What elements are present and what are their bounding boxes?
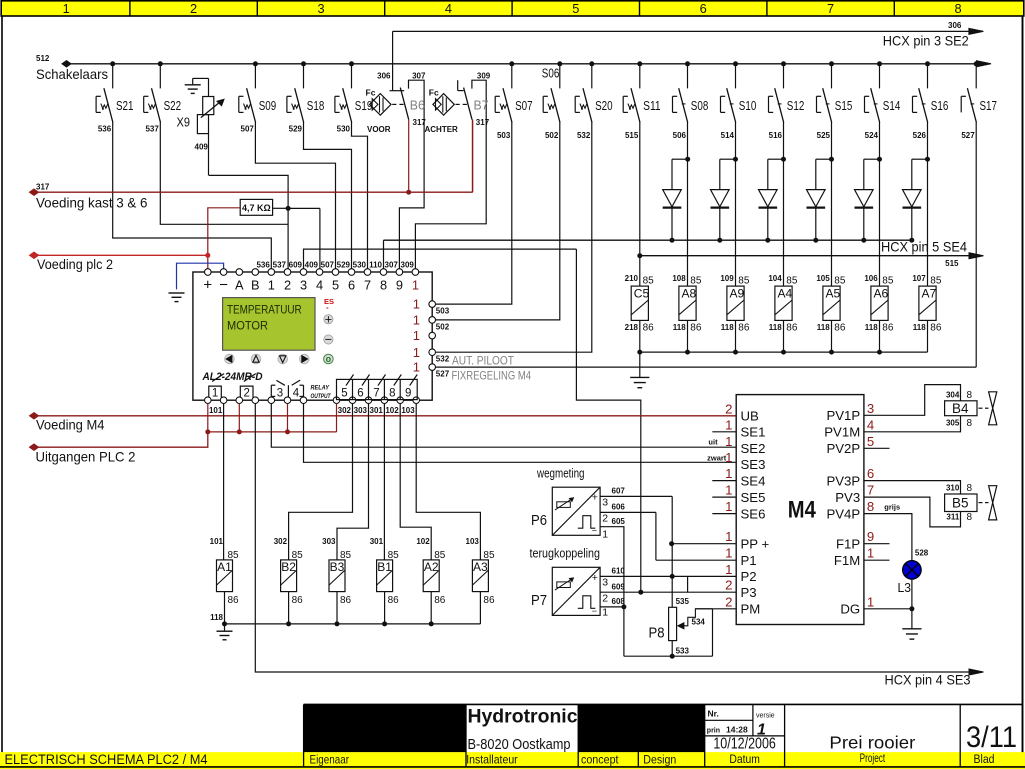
svg-text:309: 309 [401, 260, 415, 269]
svg-text:PV3: PV3 [835, 490, 860, 505]
svg-text:307: 307 [385, 260, 399, 269]
svg-text:HCX pin 4 SE3: HCX pin 4 SE3 [885, 673, 971, 688]
svg-text:SE1: SE1 [741, 425, 766, 440]
svg-text:HCX pin 5 SE4: HCX pin 5 SE4 [881, 240, 967, 255]
svg-text:1: 1 [63, 1, 70, 16]
svg-text:515: 515 [625, 131, 639, 140]
svg-text:107: 107 [912, 274, 926, 283]
svg-text:533: 533 [676, 646, 690, 655]
svg-text:4: 4 [293, 388, 300, 400]
svg-text:1: 1 [867, 594, 874, 609]
svg-text:terugkoppeling: terugkoppeling [530, 546, 601, 561]
svg-text:6: 6 [357, 388, 363, 400]
svg-text:2: 2 [602, 513, 608, 525]
svg-text:1: 1 [413, 297, 420, 312]
svg-text:Voeding kast 3 & 6: Voeding kast 3 & 6 [36, 195, 148, 210]
svg-text:1: 1 [413, 360, 420, 375]
svg-text:8: 8 [967, 483, 973, 494]
svg-text:prin: prin [707, 728, 720, 735]
svg-text:SE5: SE5 [741, 490, 766, 505]
svg-text:VOOR: VOOR [367, 125, 391, 134]
svg-text:303: 303 [322, 537, 336, 546]
svg-text:507: 507 [241, 124, 255, 133]
svg-text:7: 7 [373, 388, 379, 400]
svg-text:524: 524 [865, 131, 879, 140]
svg-text:wegmeting: wegmeting [536, 466, 584, 481]
svg-text:Eigenaar: Eigenaar [310, 753, 350, 767]
svg-text:AUT. PILOOT: AUT. PILOOT [452, 354, 515, 368]
svg-text:86: 86 [930, 323, 942, 334]
svg-text:1: 1 [413, 313, 420, 328]
svg-text:311: 311 [946, 512, 959, 521]
svg-text:+: + [592, 492, 598, 504]
svg-text:C5: C5 [634, 286, 650, 300]
svg-text:86: 86 [882, 323, 894, 334]
svg-text:PV1P: PV1P [826, 408, 860, 423]
svg-text:10/12/2006: 10/12/2006 [713, 736, 776, 753]
svg-text:85: 85 [690, 276, 702, 287]
svg-text:P2: P2 [741, 569, 757, 584]
svg-text:503: 503 [497, 131, 511, 140]
svg-text:86: 86 [834, 323, 846, 334]
svg-text:1: 1 [867, 546, 874, 561]
svg-text:8: 8 [867, 499, 874, 514]
svg-text:317: 317 [476, 118, 490, 127]
svg-text:S14: S14 [883, 98, 901, 113]
svg-text:3: 3 [867, 401, 874, 416]
svg-text:1: 1 [602, 607, 608, 619]
svg-text:4: 4 [867, 417, 874, 432]
svg-text:3: 3 [602, 577, 608, 589]
svg-text:102: 102 [416, 537, 430, 546]
svg-text:Prei rooier: Prei rooier [829, 733, 915, 753]
svg-text:S21: S21 [116, 98, 134, 113]
svg-text:101: 101 [209, 406, 223, 415]
svg-text:218: 218 [625, 323, 639, 332]
svg-text:86: 86 [340, 595, 352, 606]
svg-text:S06: S06 [542, 66, 560, 81]
svg-text:7: 7 [364, 278, 371, 293]
svg-text:3/11: 3/11 [966, 721, 1017, 754]
svg-text:85: 85 [643, 276, 655, 287]
svg-text:607: 607 [612, 487, 626, 496]
svg-text:Nr.: Nr. [708, 709, 719, 719]
svg-text:118: 118 [769, 323, 782, 332]
svg-text:S07: S07 [515, 98, 533, 113]
svg-text:3: 3 [317, 1, 324, 16]
svg-text:528: 528 [915, 549, 929, 558]
svg-text:-: - [326, 303, 329, 312]
svg-text:A6: A6 [874, 286, 889, 300]
svg-text:PV3P: PV3P [826, 473, 860, 488]
svg-text:609: 609 [612, 582, 626, 591]
svg-text:536: 536 [256, 260, 270, 269]
svg-text:2: 2 [725, 578, 732, 593]
svg-text:85: 85 [738, 276, 750, 287]
svg-text:PV2P: PV2P [826, 441, 860, 456]
svg-text:Voeding plc 2: Voeding plc 2 [37, 257, 113, 272]
svg-text:ELECTRISCH SCHEMA PLC2 / M4: ELECTRISCH SCHEMA PLC2 / M4 [5, 752, 208, 767]
svg-text:P8: P8 [649, 625, 665, 641]
svg-text:Datum: Datum [729, 752, 760, 766]
svg-text:317: 317 [36, 183, 50, 192]
svg-text:86: 86 [483, 595, 495, 606]
svg-text:409: 409 [305, 260, 319, 269]
svg-text:606: 606 [612, 503, 626, 512]
svg-text:P1: P1 [741, 553, 757, 568]
svg-text:HCX pin 3 SE2: HCX pin 3 SE2 [883, 34, 969, 49]
svg-text:B6: B6 [410, 98, 425, 113]
svg-text:101: 101 [210, 537, 224, 546]
svg-text:85: 85 [434, 550, 446, 561]
svg-text:86: 86 [738, 323, 750, 334]
svg-text:534: 534 [692, 617, 706, 626]
svg-text:P7: P7 [531, 593, 547, 609]
svg-text:MOTOR: MOTOR [227, 318, 268, 332]
svg-text:S22: S22 [164, 98, 182, 113]
svg-text:A8: A8 [682, 286, 697, 300]
svg-text:309: 309 [477, 71, 491, 80]
svg-text:85: 85 [388, 550, 400, 561]
svg-text:102: 102 [385, 406, 399, 415]
svg-text:532: 532 [577, 131, 591, 140]
svg-text:concept: concept [581, 753, 619, 767]
svg-text:2: 2 [284, 278, 291, 293]
svg-text:1: 1 [268, 278, 275, 293]
svg-text:210: 210 [625, 274, 639, 283]
svg-text:5: 5 [572, 1, 579, 16]
svg-text:8: 8 [967, 390, 973, 401]
svg-text:304: 304 [946, 390, 960, 399]
svg-text:Hydrotronic: Hydrotronic [468, 706, 578, 728]
svg-text:2: 2 [725, 401, 732, 416]
svg-text:8: 8 [967, 512, 973, 523]
svg-text:85: 85 [228, 550, 240, 561]
svg-text:+: + [325, 312, 332, 326]
svg-text:103: 103 [401, 406, 415, 415]
svg-text:9: 9 [405, 388, 411, 400]
svg-text:503: 503 [436, 307, 450, 316]
svg-text:5: 5 [332, 278, 339, 293]
svg-text:S18: S18 [307, 98, 325, 113]
svg-text:S19: S19 [355, 98, 373, 113]
svg-text:X9: X9 [177, 114, 191, 129]
svg-text:502: 502 [545, 131, 559, 140]
svg-text:305: 305 [946, 418, 960, 427]
svg-text:ACHTER: ACHTER [425, 125, 459, 134]
svg-text:−: − [325, 333, 332, 347]
svg-text:302: 302 [274, 537, 288, 546]
svg-text:PM: PM [741, 602, 761, 617]
svg-text:109: 109 [720, 274, 734, 283]
svg-text:Fc: Fc [429, 88, 439, 98]
svg-text:RELAY: RELAY [311, 384, 330, 391]
svg-text:L3: L3 [898, 580, 912, 595]
svg-text:118: 118 [673, 323, 686, 332]
svg-text:85: 85 [340, 550, 352, 561]
svg-text:515: 515 [945, 259, 959, 268]
svg-text:A7: A7 [922, 286, 937, 300]
svg-text:M4: M4 [788, 497, 817, 524]
svg-text:8: 8 [954, 1, 961, 16]
svg-text:1: 1 [602, 529, 608, 541]
svg-text:9: 9 [867, 529, 874, 544]
svg-text:6: 6 [867, 466, 874, 481]
svg-text:1: 1 [725, 483, 732, 498]
svg-text:302: 302 [338, 406, 352, 415]
svg-text:DG: DG [840, 602, 860, 617]
svg-text:PV4P: PV4P [826, 506, 860, 521]
svg-text:A4: A4 [778, 286, 793, 300]
svg-text:502: 502 [436, 322, 450, 331]
svg-text:86: 86 [643, 323, 655, 334]
svg-text:605: 605 [612, 517, 626, 526]
svg-text:86: 86 [786, 323, 798, 334]
svg-text:85: 85 [786, 276, 798, 287]
svg-text:2: 2 [243, 388, 249, 400]
svg-text:3: 3 [602, 497, 608, 509]
svg-text:6: 6 [348, 278, 355, 293]
svg-text:B4: B4 [952, 401, 969, 416]
svg-text:grijs: grijs [884, 503, 900, 512]
svg-text:B-8020 Oostkamp: B-8020 Oostkamp [468, 737, 571, 753]
svg-text:118: 118 [210, 613, 223, 622]
svg-text:301: 301 [370, 406, 384, 415]
svg-text:537: 537 [145, 124, 159, 133]
svg-text:6: 6 [700, 1, 707, 16]
svg-text:529: 529 [289, 124, 303, 133]
svg-text:SE2: SE2 [741, 441, 766, 456]
svg-text:A5: A5 [826, 286, 841, 300]
svg-text:507: 507 [321, 260, 335, 269]
svg-text:512: 512 [36, 54, 50, 63]
svg-text:UB: UB [741, 409, 760, 424]
svg-text:306: 306 [948, 21, 962, 30]
svg-text:610: 610 [612, 567, 626, 576]
svg-text:A9: A9 [730, 286, 745, 300]
svg-text:4: 4 [316, 278, 323, 293]
svg-text:86: 86 [388, 595, 400, 606]
svg-text:P6: P6 [531, 513, 547, 529]
svg-text:1: 1 [725, 499, 732, 514]
svg-text:307: 307 [412, 71, 426, 80]
svg-text:2: 2 [725, 594, 732, 609]
svg-text:85: 85 [882, 276, 894, 287]
svg-text:514: 514 [721, 131, 735, 140]
svg-text:1: 1 [725, 562, 732, 577]
svg-text:SE6: SE6 [741, 506, 766, 521]
svg-text:108: 108 [672, 274, 686, 283]
svg-text:S09: S09 [259, 98, 277, 113]
svg-text:104: 104 [768, 274, 782, 283]
svg-text:S08: S08 [691, 98, 709, 113]
svg-text:3: 3 [300, 278, 307, 293]
svg-text:103: 103 [466, 537, 480, 546]
svg-text:537: 537 [273, 260, 287, 269]
svg-text:609: 609 [289, 260, 303, 269]
svg-text:SE3: SE3 [741, 457, 766, 472]
svg-text:118: 118 [817, 323, 830, 332]
svg-text:1: 1 [412, 278, 419, 293]
svg-text:B7: B7 [474, 98, 489, 113]
svg-text:S11: S11 [643, 98, 661, 113]
svg-text:118: 118 [913, 323, 926, 332]
svg-text:86: 86 [434, 595, 446, 606]
svg-text:zwart: zwart [707, 454, 727, 463]
svg-text:+: + [592, 572, 598, 584]
svg-text:1: 1 [725, 546, 732, 561]
svg-text:105: 105 [816, 274, 830, 283]
svg-text:85: 85 [483, 550, 495, 561]
svg-text:+: + [203, 277, 212, 294]
svg-text:301: 301 [370, 537, 384, 546]
svg-text:Uitgangen PLC 2: Uitgangen PLC 2 [36, 449, 136, 464]
svg-text:8: 8 [967, 418, 973, 429]
svg-text:TEMPERATUUR: TEMPERATUUR [227, 302, 302, 316]
svg-text:535: 535 [676, 597, 690, 606]
svg-text:306: 306 [377, 71, 391, 80]
svg-text:506: 506 [673, 131, 687, 140]
svg-text:Project: Project [860, 751, 886, 765]
svg-text:8: 8 [389, 388, 395, 400]
svg-text:Design: Design [643, 753, 676, 767]
svg-text:B5: B5 [952, 496, 969, 511]
svg-text:85: 85 [834, 276, 846, 287]
svg-text:85: 85 [930, 276, 942, 287]
svg-text:PV1M: PV1M [824, 425, 860, 440]
svg-text:7: 7 [827, 1, 834, 16]
svg-text:4: 4 [445, 1, 452, 16]
svg-text:1: 1 [413, 328, 420, 343]
svg-text:7: 7 [867, 483, 874, 498]
svg-text:S12: S12 [787, 98, 805, 113]
svg-text:409: 409 [195, 142, 209, 151]
svg-text:86: 86 [690, 323, 702, 334]
svg-text:536: 536 [98, 124, 112, 133]
svg-text:118: 118 [865, 323, 878, 332]
svg-text:S17: S17 [980, 98, 998, 113]
svg-text:526: 526 [913, 131, 927, 140]
svg-text:9: 9 [396, 278, 403, 293]
svg-text:1: 1 [725, 529, 732, 544]
svg-text:FIXREGELING M4: FIXREGELING M4 [452, 369, 532, 383]
svg-text:1: 1 [413, 345, 420, 360]
svg-text:527: 527 [436, 370, 450, 379]
svg-text:303: 303 [354, 406, 368, 415]
svg-text:516: 516 [769, 131, 783, 140]
svg-text:A: A [235, 278, 244, 293]
svg-text:1: 1 [725, 466, 732, 481]
svg-text:3: 3 [277, 388, 283, 400]
svg-text:2: 2 [190, 1, 197, 16]
svg-text:1: 1 [212, 388, 218, 400]
svg-text:OUTPUT: OUTPUT [311, 393, 332, 400]
svg-text:Schakelaars: Schakelaars [36, 67, 108, 82]
svg-text:4,7 KΩ: 4,7 KΩ [242, 203, 271, 213]
svg-text:B: B [251, 278, 260, 293]
svg-text:532: 532 [436, 355, 450, 364]
svg-text:versie: versie [756, 713, 775, 720]
svg-text:SE4: SE4 [741, 473, 766, 488]
svg-text:5: 5 [867, 434, 874, 449]
svg-text:F1P: F1P [836, 537, 860, 552]
svg-text:PP +: PP + [741, 537, 770, 552]
svg-text:AL2-24MR-D: AL2-24MR-D [202, 371, 263, 383]
svg-text:525: 525 [817, 131, 831, 140]
svg-text:85: 85 [292, 550, 304, 561]
svg-text:uit: uit [708, 438, 718, 447]
svg-text:530: 530 [353, 260, 367, 269]
svg-text:Blad: Blad [974, 752, 995, 766]
svg-text:86: 86 [228, 595, 240, 606]
svg-text:F1M: F1M [834, 553, 860, 568]
svg-text:P3: P3 [741, 585, 757, 600]
svg-text:8: 8 [380, 278, 387, 293]
svg-text:S15: S15 [835, 98, 853, 113]
svg-text:5: 5 [341, 388, 347, 400]
svg-text:Voeding M4: Voeding M4 [36, 418, 105, 433]
svg-text:−: − [219, 277, 228, 294]
svg-text:110: 110 [369, 260, 382, 269]
svg-text:S10: S10 [739, 98, 757, 113]
svg-text:1: 1 [725, 417, 732, 432]
svg-text:1: 1 [725, 434, 732, 449]
svg-text:S16: S16 [931, 98, 949, 113]
svg-text:2: 2 [602, 593, 608, 605]
svg-text:−: − [592, 526, 597, 536]
svg-text:−: − [592, 606, 597, 616]
svg-text:527: 527 [961, 131, 975, 140]
svg-text:Fc: Fc [366, 88, 376, 98]
svg-text:14:28: 14:28 [726, 725, 748, 735]
svg-text:S20: S20 [595, 98, 613, 113]
svg-text:86: 86 [292, 595, 304, 606]
svg-text:o: o [326, 354, 332, 364]
svg-text:529: 529 [337, 260, 351, 269]
svg-text:310: 310 [946, 483, 960, 492]
svg-text:530: 530 [337, 124, 351, 133]
svg-text:608: 608 [612, 597, 626, 606]
svg-text:118: 118 [721, 323, 734, 332]
svg-text:Installateur: Installateur [466, 753, 518, 767]
svg-text:106: 106 [864, 274, 878, 283]
